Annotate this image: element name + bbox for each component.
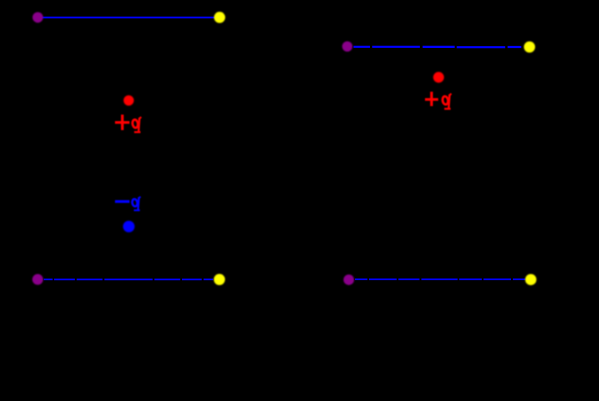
rod (c) left end charge (purple) — [32, 274, 43, 285]
label +q (red) for rod (a) — [115, 115, 141, 134]
label -q (blue) for rod (c) — [115, 197, 141, 212]
rod (c) right end charge (yellow) — [214, 274, 225, 285]
point charge -q near rod (c) (blue dot) — [123, 221, 135, 233]
rod (d) bottom-right: dashed blue rod — [355, 278, 526, 280]
rod (b) left end charge (purple) — [342, 41, 352, 51]
point charge +q near rod (a) (red dot) — [124, 95, 134, 105]
rod (d) right end charge (yellow) — [525, 274, 536, 285]
rod (a) top-left: solid blue rod — [41, 17, 216, 19]
rod (a) right end charge (yellow) — [214, 12, 225, 23]
label +q (red) for rod (b) — [425, 92, 451, 110]
rod (b) right end charge (yellow) — [524, 41, 535, 52]
rod (c) bottom-left: dashed blue rod — [44, 278, 214, 280]
rod (a) left end charge (purple) — [33, 12, 44, 23]
rod (b) top-right: dashed blue rod — [354, 46, 522, 49]
point charge +q near rod (b) (red dot) — [433, 72, 444, 83]
rod (d) left end charge (purple) — [344, 275, 355, 286]
